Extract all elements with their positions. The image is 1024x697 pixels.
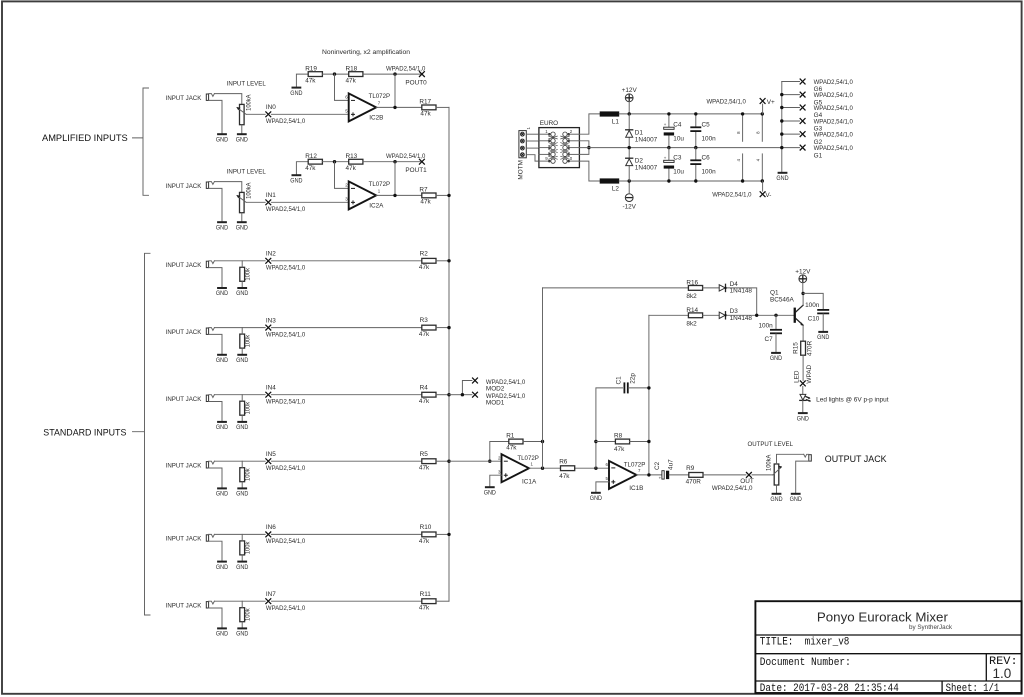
svg-text:GND: GND bbox=[216, 290, 229, 297]
wire tick to pad G6 bbox=[782, 81, 800, 83]
svg-text:TL072P: TL072P bbox=[369, 181, 391, 188]
ground 100k resistor bbox=[237, 561, 247, 563]
svg-text:INPUT JACK: INPUT JACK bbox=[166, 329, 202, 336]
svg-text:GND: GND bbox=[216, 136, 229, 143]
svg-text:C5: C5 bbox=[702, 121, 711, 128]
svg-text:GND: GND bbox=[236, 290, 249, 297]
wire C7 bottom lead bbox=[775, 334, 777, 353]
wire IC1B output bbox=[637, 474, 662, 476]
svg-text:WPAD2,54/1,0: WPAD2,54/1,0 bbox=[814, 79, 854, 86]
wire D4 to junction bbox=[727, 288, 757, 315]
diode D3 1N4148 bbox=[719, 312, 727, 319]
IC2 power pin 8 stub bbox=[761, 114, 763, 141]
svg-text:D2: D2 bbox=[635, 158, 644, 165]
wire feedback down to inverting input bbox=[335, 74, 349, 100]
svg-text:1N4007: 1N4007 bbox=[635, 165, 658, 172]
svg-text:47k: 47k bbox=[506, 445, 517, 452]
svg-text:TL072P: TL072P bbox=[369, 93, 391, 100]
ground jack sleeve channel 1 bbox=[217, 221, 227, 223]
svg-text:+: + bbox=[659, 476, 662, 481]
node MOD junction bbox=[461, 393, 464, 396]
svg-text:1N4148: 1N4148 bbox=[730, 315, 753, 322]
svg-text:V+: V+ bbox=[767, 99, 775, 106]
node R8 right bbox=[647, 440, 650, 443]
resistor R16 8k2 bbox=[688, 286, 702, 291]
resistor 100k pulldown (IN3) bbox=[240, 334, 245, 348]
wire bus to MOD pads bbox=[449, 394, 462, 396]
pad POUT1 WPAD2,54/1,0 bbox=[419, 159, 425, 165]
node IC1B inverting node bbox=[594, 467, 597, 470]
svg-text:OUTPUT JACK: OUTPUT JACK bbox=[825, 453, 887, 464]
resistor R5 47k bbox=[422, 459, 436, 464]
svg-text:100n: 100n bbox=[805, 302, 820, 309]
wire potentiometer bottom to ground bbox=[241, 213, 243, 223]
node -12V junction bbox=[628, 179, 631, 182]
svg-text:GND: GND bbox=[797, 415, 810, 422]
node power stub bottom bbox=[761, 179, 764, 182]
svg-text:WPAD2,54/1,0: WPAD2,54/1,0 bbox=[266, 331, 306, 338]
wire IC1B output column to R14 bbox=[649, 314, 689, 316]
supply -12V symbol bbox=[625, 194, 633, 202]
svg-text:WPAD2,54/1,0: WPAD2,54/1,0 bbox=[712, 192, 752, 199]
svg-text:C6: C6 bbox=[702, 155, 711, 162]
svg-text:GND: GND bbox=[776, 175, 789, 182]
wire resistor leads bbox=[241, 601, 243, 608]
svg-text:TITLE: mixer_v8: TITLE: mixer_v8 bbox=[760, 637, 850, 649]
svg-text:C3: C3 bbox=[673, 155, 682, 162]
svg-text:100kA: 100kA bbox=[766, 454, 773, 471]
wire to mix bus bbox=[436, 106, 449, 108]
wire -12V rail bbox=[619, 180, 762, 182]
wire to mix bus bbox=[436, 260, 449, 262]
wire pad to op-amp noninverting input bbox=[271, 113, 348, 115]
svg-text:C1: C1 bbox=[615, 376, 622, 385]
node C1 right bbox=[647, 386, 650, 389]
wire D3 to Q1 base bbox=[727, 314, 794, 316]
svg-text:WPAD2,54/1,0: WPAD2,54/1,0 bbox=[814, 105, 854, 112]
wire R9 to OUT pad bbox=[703, 474, 746, 476]
svg-text:7: 7 bbox=[638, 468, 641, 473]
ground jack sleeve bbox=[217, 354, 227, 356]
wire C6 leads bbox=[695, 148, 697, 161]
svg-text:GND: GND bbox=[236, 491, 249, 498]
svg-text:100k: 100k bbox=[244, 608, 251, 621]
wire EURO row2 jog to GND rail bbox=[579, 141, 589, 148]
svg-text:R14: R14 bbox=[686, 307, 698, 314]
node +12V junction bbox=[628, 112, 631, 115]
svg-text:+: + bbox=[664, 155, 667, 160]
diode D2 1N4007 bbox=[626, 158, 633, 165]
svg-text:2: 2 bbox=[570, 129, 573, 134]
svg-text:WPAD2,54/1,0: WPAD2,54/1,0 bbox=[266, 398, 306, 405]
svg-text:Ponyo Eurorack Mixer: Ponyo Eurorack Mixer bbox=[817, 609, 949, 624]
capacitor C1 22p bbox=[624, 382, 627, 393]
wire EURO row4 jog to GND rail bbox=[579, 148, 589, 155]
wire potentiometer bottom to ground bbox=[241, 125, 243, 135]
svg-text:GND: GND bbox=[216, 357, 229, 364]
pad OUT WPAD2,54/1,0 bbox=[746, 472, 752, 478]
resistor R3 47k bbox=[422, 325, 436, 330]
wire resistor leads bbox=[241, 534, 243, 541]
wire jack tip to pad bbox=[214, 460, 265, 462]
svg-text:R11: R11 bbox=[420, 591, 432, 598]
resistor R12 47k bbox=[308, 159, 322, 164]
svg-text:4u7: 4u7 bbox=[668, 459, 675, 470]
svg-text:AMPLIFIED INPUTS: AMPLIFIED INPUTS bbox=[42, 132, 128, 143]
node diode junction bbox=[755, 314, 758, 317]
node bus junction bbox=[447, 533, 450, 536]
svg-text:47k: 47k bbox=[420, 111, 431, 118]
wire MOTM pin4 to EURO bbox=[526, 155, 539, 161]
ground IC1B noninverting input bbox=[591, 492, 601, 494]
svg-text:TL072P: TL072P bbox=[517, 455, 539, 462]
svg-text:IC1B: IC1B bbox=[629, 485, 643, 492]
svg-text:R7: R7 bbox=[419, 186, 428, 193]
svg-text:C2: C2 bbox=[654, 461, 661, 470]
svg-text:47k: 47k bbox=[305, 165, 316, 172]
svg-text:100k: 100k bbox=[244, 401, 251, 414]
ground R19 stub bbox=[292, 87, 302, 89]
svg-text:R2: R2 bbox=[420, 250, 429, 257]
node output-feedback junction bbox=[393, 72, 396, 75]
svg-text:100k: 100k bbox=[244, 267, 251, 280]
svg-text:WPAD2,54/1,0: WPAD2,54/1,0 bbox=[266, 465, 306, 472]
node bus junction bbox=[447, 259, 450, 262]
wire pad to summing resistor bbox=[271, 600, 421, 602]
svg-text:R15: R15 bbox=[793, 342, 800, 354]
wire tick to pad G5 bbox=[782, 94, 800, 96]
wire ground stub to R12 bbox=[296, 162, 308, 175]
svg-text:47k: 47k bbox=[419, 538, 430, 545]
node output-feedback junction bbox=[393, 160, 396, 163]
wire pot top to output jack tip bbox=[777, 454, 804, 464]
node power stub top bbox=[761, 112, 764, 115]
svg-text:R12: R12 bbox=[305, 153, 317, 160]
potentiometer P2 100kA OUTPUT LEVEL bbox=[773, 464, 782, 485]
svg-text:R13: R13 bbox=[346, 153, 358, 160]
svg-text:Date: 2017-03-28 21:35:44: Date: 2017-03-28 21:35:44 bbox=[760, 683, 899, 695]
pad POUT0 WPAD2,54/1,0 bbox=[419, 71, 425, 77]
wire wiper to pad bbox=[246, 113, 265, 115]
node EURO gnd join bbox=[587, 146, 590, 149]
wire tick to pad G2 bbox=[782, 133, 800, 135]
input jack J0 (amplified channel 0) bbox=[206, 94, 222, 135]
pad IN5 WPAD2,54/1,0 bbox=[265, 458, 271, 464]
wire jack tip to pad bbox=[214, 327, 265, 329]
wire OUT pad to output pot wiper bbox=[752, 474, 773, 476]
wire resistor leads bbox=[241, 328, 243, 335]
svg-text:R3: R3 bbox=[420, 317, 429, 324]
wire C2 to R9 bbox=[669, 474, 689, 476]
pad V- WPAD2,54/1,0 bbox=[760, 191, 766, 197]
pad IN0 WPAD2,54/1,0 bbox=[265, 111, 271, 117]
svg-text:IN3: IN3 bbox=[266, 317, 276, 324]
svg-text:GND: GND bbox=[216, 564, 229, 571]
resistor 100k pulldown (IN4) bbox=[240, 401, 245, 415]
svg-text:MOD2: MOD2 bbox=[486, 385, 505, 392]
wire to mix bus bbox=[436, 600, 449, 602]
pad G6 WPAD2,54/1,0 bbox=[800, 79, 806, 85]
connector MOTM 4-pin bbox=[519, 131, 526, 158]
svg-text:GND: GND bbox=[216, 424, 229, 431]
capacitor C6 100n bbox=[690, 160, 701, 164]
svg-text:L2: L2 bbox=[612, 185, 620, 192]
node C5 bottom bbox=[694, 146, 697, 149]
wire pad to op-amp noninverting input bbox=[271, 201, 348, 203]
svg-text:-12V: -12V bbox=[622, 204, 636, 211]
inductor L2 bbox=[600, 178, 620, 183]
wire D2 vertical bbox=[628, 148, 630, 181]
title block rev divider bbox=[985, 654, 987, 681]
IC1 power pin 4 stub bbox=[742, 154, 744, 181]
inductor L1 bbox=[600, 111, 620, 116]
wire IC1A output bbox=[529, 467, 609, 469]
resistor R1 47k bbox=[509, 439, 523, 444]
svg-text:100k: 100k bbox=[244, 541, 251, 554]
svg-text:0: 0 bbox=[570, 156, 573, 161]
supply +12V (Q1) bbox=[799, 275, 807, 283]
ground C7 bbox=[771, 352, 781, 354]
node bus R7 bbox=[447, 194, 450, 197]
IC2 power pin 4 stub bbox=[761, 154, 763, 181]
ground LED bbox=[798, 412, 808, 414]
wire jack tip to pad bbox=[214, 600, 265, 602]
title block sheet divider bbox=[941, 681, 943, 693]
svg-text:WPAD2,54/1,0: WPAD2,54/1,0 bbox=[386, 65, 426, 72]
svg-text:GND: GND bbox=[236, 357, 249, 364]
svg-text:47k: 47k bbox=[614, 446, 625, 453]
svg-text:C4: C4 bbox=[673, 121, 682, 128]
ground 100k resistor bbox=[237, 354, 247, 356]
svg-text:WPAD2,54/1,0: WPAD2,54/1,0 bbox=[266, 538, 306, 545]
wire R1 to output column bbox=[523, 441, 543, 443]
wire ground pad bus bbox=[781, 82, 783, 173]
svg-text:WPAD2,54/1,0: WPAD2,54/1,0 bbox=[814, 92, 854, 99]
wire noninverting to ground bbox=[490, 475, 502, 486]
wire C1 right to column bbox=[628, 387, 649, 389]
node bus G3 bbox=[780, 119, 783, 122]
input jack J2 (standard IN2) bbox=[206, 261, 222, 288]
svg-text:+12V: +12V bbox=[795, 269, 811, 276]
svg-text:R16: R16 bbox=[686, 279, 698, 286]
node feedback junction IC2B bbox=[333, 72, 336, 75]
resistor R7 47k bbox=[422, 193, 436, 198]
wire jack tip to potentiometer bbox=[214, 182, 241, 193]
svg-text:100kA: 100kA bbox=[246, 94, 253, 111]
wire IC1A output to R16 bbox=[543, 287, 689, 289]
ground jack sleeve bbox=[217, 627, 227, 629]
ground jack sleeve bbox=[217, 561, 227, 563]
svg-text:INPUT LEVEL: INPUT LEVEL bbox=[227, 169, 267, 176]
svg-text:WPAD2,54/1,0: WPAD2,54/1,0 bbox=[712, 485, 753, 492]
wire R14 to D3 bbox=[703, 314, 719, 316]
svg-text:R19: R19 bbox=[305, 65, 317, 72]
wire tick to pad G1 bbox=[782, 147, 800, 149]
ground jack sleeve channel 0 bbox=[217, 133, 227, 135]
resistor 100k pulldown (IN2) bbox=[240, 267, 245, 281]
svg-text:INPUT JACK: INPUT JACK bbox=[166, 536, 202, 543]
wire D1 vertical bbox=[628, 114, 630, 148]
wire inverting column up to C1 bbox=[596, 388, 623, 468]
resistor R9 470R bbox=[689, 473, 703, 478]
svg-text:POUT0: POUT0 bbox=[405, 79, 427, 86]
pad G4 WPAD2,54/1,0 bbox=[800, 105, 806, 111]
svg-text:10u: 10u bbox=[673, 169, 684, 176]
svg-text:IN4: IN4 bbox=[266, 385, 276, 392]
EURO header pins bbox=[539, 132, 580, 163]
svg-text:by SyntherJack: by SyntherJack bbox=[909, 624, 953, 631]
svg-text:R10: R10 bbox=[420, 524, 432, 531]
svg-text:47k: 47k bbox=[559, 473, 570, 480]
resistor R19 47k bbox=[308, 72, 322, 77]
svg-text:470R: 470R bbox=[686, 479, 702, 486]
svg-text:47k: 47k bbox=[419, 331, 430, 338]
wire feedback down to inverting input bbox=[335, 162, 349, 189]
capacitor C10 100n bbox=[817, 310, 829, 314]
svg-text:GND: GND bbox=[216, 631, 229, 638]
svg-text:INPUT JACK: INPUT JACK bbox=[166, 262, 202, 269]
svg-text:1N4148: 1N4148 bbox=[730, 288, 753, 295]
svg-text:470R: 470R bbox=[807, 340, 814, 356]
svg-text:STANDARD INPUTS: STANDARD INPUTS bbox=[43, 426, 126, 437]
node C4 top bbox=[667, 112, 670, 115]
node C6 bottom bbox=[694, 179, 697, 182]
wire LED pad to LED bbox=[802, 387, 804, 395]
svg-text:L1: L1 bbox=[612, 118, 620, 125]
wire resistor leads bbox=[241, 395, 243, 402]
node output junction bbox=[393, 106, 396, 109]
svg-text:IN6: IN6 bbox=[266, 524, 276, 531]
capacitor C5 100n bbox=[690, 127, 701, 131]
svg-text:1: 1 bbox=[531, 461, 534, 466]
pad MOD2 WPAD2,54/1,0 bbox=[472, 378, 478, 384]
svg-text:47k: 47k bbox=[419, 264, 430, 271]
op-amp IC1A TL072P bbox=[498, 454, 533, 482]
wire feedback to pad bbox=[363, 73, 422, 75]
ground 100k resistor bbox=[237, 421, 247, 423]
ground R12 stub bbox=[292, 174, 302, 176]
ground jack sleeve bbox=[217, 487, 227, 489]
resistor R8 47k bbox=[615, 439, 629, 444]
node C4 bottom bbox=[667, 146, 670, 149]
input jack J4 (standard IN4) bbox=[206, 395, 222, 422]
resistor R18 47k bbox=[349, 72, 363, 77]
input jack J3 (standard IN3) bbox=[206, 328, 222, 355]
svg-text:WPAD2,54/1,0: WPAD2,54/1,0 bbox=[266, 118, 306, 125]
svg-text:GND: GND bbox=[290, 177, 303, 184]
svg-text:R17: R17 bbox=[419, 98, 431, 105]
node power stub bottom bbox=[741, 179, 744, 182]
svg-text:INPUT JACK: INPUT JACK bbox=[166, 95, 202, 102]
wire ground stub to R19 bbox=[296, 74, 308, 87]
svg-text:Document Number:: Document Number: bbox=[760, 657, 851, 669]
svg-text:8k2: 8k2 bbox=[686, 293, 697, 300]
wire R8 left lead bbox=[596, 441, 615, 443]
svg-text:R6: R6 bbox=[559, 458, 568, 465]
svg-text:C7: C7 bbox=[765, 336, 774, 343]
wire pad to summing resistor bbox=[271, 533, 421, 535]
wire C7 top lead bbox=[775, 315, 777, 329]
wire MOTM pin3 to EURO bbox=[526, 147, 539, 149]
wire bus to inverting input bbox=[449, 460, 502, 462]
svg-text:GND: GND bbox=[817, 334, 830, 341]
svg-text:GND: GND bbox=[770, 355, 783, 362]
ground potentiometer P0 bbox=[237, 133, 247, 135]
svg-text:WPAD2,54/1,0: WPAD2,54/1,0 bbox=[707, 99, 747, 106]
ground output pot bbox=[772, 493, 782, 495]
wire C10 to ground bbox=[822, 314, 824, 332]
svg-text:R18: R18 bbox=[346, 65, 358, 72]
svg-text:G1: G1 bbox=[814, 152, 823, 159]
svg-text:WPAD2,54/1,0: WPAD2,54/1,0 bbox=[266, 605, 306, 612]
pad V+ WPAD2,54/1,0 bbox=[760, 98, 766, 104]
svg-text:D1: D1 bbox=[635, 129, 644, 136]
node bus junction bbox=[447, 460, 450, 463]
svg-text:1: 1 bbox=[545, 129, 548, 134]
svg-text:Noninverting, x2 amplification: Noninverting, x2 amplification bbox=[322, 49, 410, 56]
svg-text:100k: 100k bbox=[244, 334, 251, 347]
wire output node vertical bbox=[394, 74, 396, 107]
bracket amplified inputs bbox=[133, 88, 149, 195]
node C5 top bbox=[694, 112, 697, 115]
wire EURO row5 to L2 bbox=[579, 161, 599, 181]
capacitor C2 4u7 polarized bbox=[659, 471, 670, 481]
svg-text:1.0: 1.0 bbox=[993, 666, 1012, 681]
svg-text:GND: GND bbox=[790, 496, 803, 503]
resistor 100k pulldown (IN5) bbox=[240, 468, 245, 482]
resistor R14 8k2 bbox=[688, 313, 702, 318]
svg-text:47k: 47k bbox=[305, 77, 316, 84]
svg-text:IC1A: IC1A bbox=[522, 478, 537, 485]
svg-text:R8: R8 bbox=[614, 432, 623, 439]
svg-text:4: 4 bbox=[736, 158, 741, 161]
wire to mix bus bbox=[436, 460, 449, 462]
wire to mix bus bbox=[436, 327, 449, 329]
wire to mix bus bbox=[436, 194, 449, 196]
pad IN3 WPAD2,54/1,0 bbox=[265, 325, 271, 331]
resistor R2 47k bbox=[422, 258, 436, 263]
svg-text:10u: 10u bbox=[673, 135, 684, 142]
svg-text:47k: 47k bbox=[419, 465, 430, 472]
svg-text:8k2: 8k2 bbox=[686, 320, 697, 327]
svg-text:C10: C10 bbox=[808, 315, 820, 322]
wire feedback to pad bbox=[363, 161, 422, 163]
ground C10 bbox=[818, 331, 828, 333]
svg-text:WPAD2,54/1,0: WPAD2,54/1,0 bbox=[386, 153, 426, 160]
title block row lines bbox=[755, 635, 1021, 681]
svg-text:GND: GND bbox=[216, 491, 229, 498]
node collector junction bbox=[801, 292, 804, 295]
wire tick to pad G3 bbox=[782, 120, 800, 122]
input jack J5 (standard IN5) bbox=[206, 461, 222, 488]
svg-text:1: 1 bbox=[378, 189, 381, 194]
svg-text:47k: 47k bbox=[420, 199, 431, 206]
wire C3 leads bbox=[668, 148, 670, 161]
bracket standard inputs bbox=[133, 253, 151, 615]
node bus junction bbox=[447, 326, 450, 329]
wire jack tip to pad bbox=[214, 394, 265, 396]
svg-text:GND: GND bbox=[236, 224, 249, 231]
wire wiper to pad bbox=[246, 201, 265, 203]
svg-text:GND: GND bbox=[216, 224, 229, 231]
wire to C10 bbox=[803, 293, 823, 309]
op-amp IC2A TL072P bbox=[345, 181, 380, 209]
node C3 bottom bbox=[667, 179, 670, 182]
node IC1A output bbox=[541, 467, 544, 470]
svg-text:GND: GND bbox=[236, 631, 249, 638]
node feedback junction IC2A bbox=[333, 160, 336, 163]
node D1-D2 gnd rail bbox=[628, 146, 631, 149]
